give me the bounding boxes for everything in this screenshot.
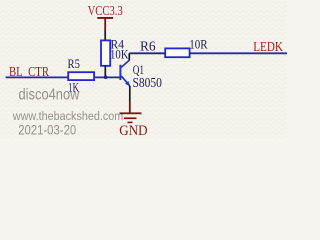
transistor Q1 emitter pin: [129, 86, 131, 101]
resistor R6 body: [165, 48, 189, 57]
transistor Q1 base bar: [119, 65, 121, 80]
ground bar 3: [128, 122, 133, 124]
wire emitter to GND: [129, 101, 131, 113]
svg-text:2021-03-20: 2021-03-20: [18, 122, 76, 137]
svg-text:10R: 10R: [189, 37, 208, 51]
junction dot: [104, 75, 108, 79]
resistor R5 body: [68, 72, 94, 80]
ground bar 1: [120, 112, 142, 114]
transistor Q1 emitter arrow: [125, 81, 130, 86]
ground bar 2: [124, 117, 137, 119]
svg-text:R6: R6: [140, 39, 156, 54]
transistor Q1 collector pin: [128, 53, 130, 60]
wire BL_CTR to Q1 base: [6, 76, 120, 78]
svg-text:LEDK: LEDK: [253, 40, 283, 55]
svg-text:www.thebackshed.com: www.thebackshed.com: [12, 111, 123, 123]
svg-text:1K: 1K: [68, 80, 79, 94]
resistor R4 body: [101, 40, 110, 65]
svg-text:GND: GND: [119, 123, 147, 139]
svg-text:VCC3.3: VCC3.3: [88, 4, 123, 19]
power port VCC3.3 stem: [104, 19, 106, 31]
wire VCC to R4: [104, 30, 106, 41]
svg-text:R5: R5: [68, 57, 80, 71]
svg-text:S8050: S8050: [133, 76, 162, 91]
svg-text:10K: 10K: [110, 48, 129, 62]
wire collector to R6: [129, 52, 166, 54]
wire R6 to LEDK: [190, 52, 287, 54]
power port VCC3.3 bar: [97, 17, 113, 19]
transistor Q1 emitter diagonal: [121, 76, 130, 86]
transistor Q1 collector diagonal: [121, 60, 129, 67]
pin R4 to junction: [104, 66, 106, 78]
